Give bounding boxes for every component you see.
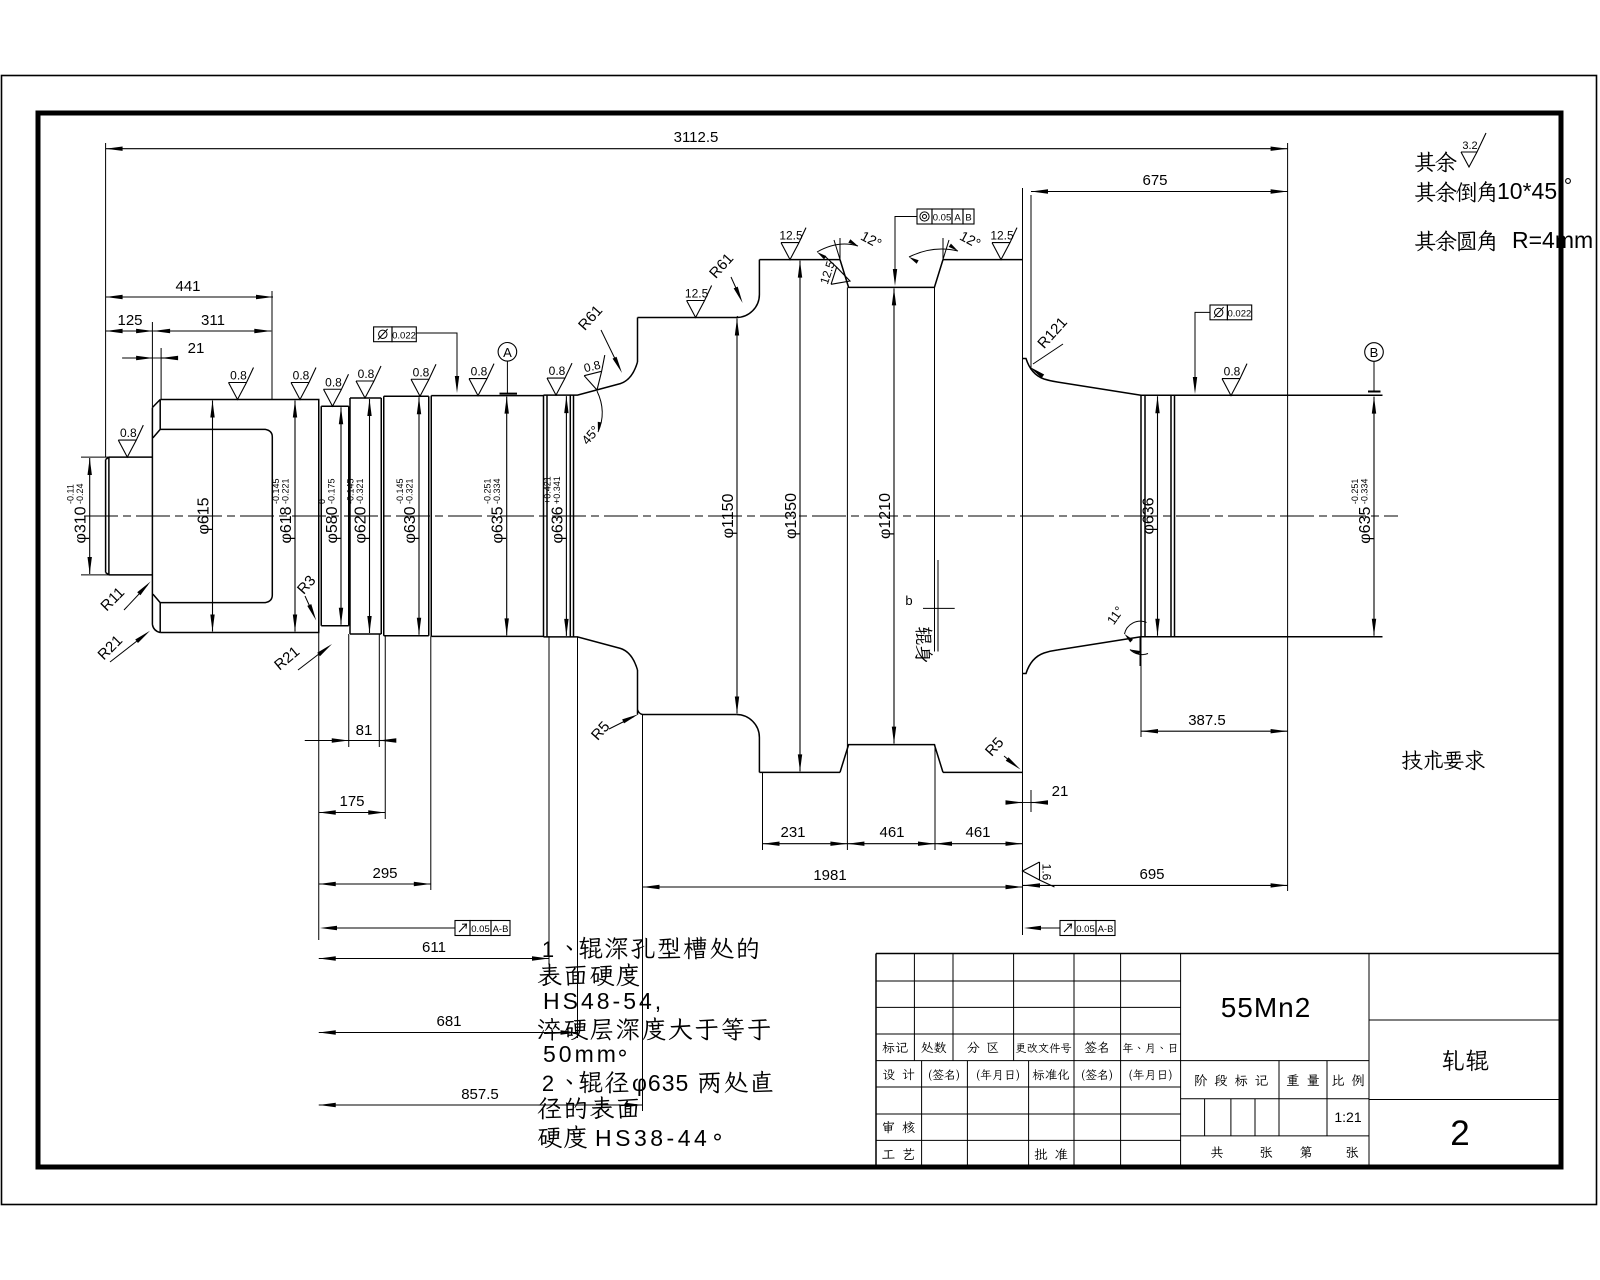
svg-text:φ310: φ310: [73, 506, 90, 543]
svg-text:311: 311: [201, 312, 225, 329]
dim phi615: [212, 401, 214, 632]
remark: rest surfaces 3.2: [1415, 151, 1457, 172]
svg-text:B: B: [965, 213, 971, 224]
section phi630: [384, 396, 429, 636]
title block grid: [876, 953, 1561, 955]
svg-text:0: 0: [317, 499, 327, 504]
ring phi636 right: [1141, 395, 1175, 636]
svg-text:0.8: 0.8: [471, 365, 488, 379]
title block stage row: [1195, 1074, 1267, 1086]
dim phi1150: [736, 319, 738, 714]
title block part name: [1443, 1050, 1489, 1072]
roughness 0.8 on phi580: [324, 374, 349, 406]
drive flat (spanner flat) edges: [153, 429, 272, 602]
dim phi1210: [893, 288, 895, 743]
svg-text:175: 175: [339, 793, 364, 810]
svg-text:1:21: 1:21: [1334, 1109, 1361, 1125]
svg-text:A-B: A-B: [1098, 924, 1114, 935]
angle 12 deg right: [934, 238, 949, 287]
dim 387.5: [1141, 730, 1288, 732]
svg-text:φ635: φ635: [490, 506, 507, 543]
svg-text:-0.145: -0.145: [271, 478, 281, 504]
svg-text:-0.145: -0.145: [395, 478, 405, 504]
svg-text:φ636: φ636: [1141, 497, 1158, 534]
cylindricity frame 0.022 right: [1210, 305, 1227, 320]
svg-text:0.8: 0.8: [120, 426, 137, 440]
svg-text:81: 81: [356, 722, 373, 739]
svg-text:3.2: 3.2: [1462, 140, 1477, 152]
svg-text:-0.321: -0.321: [355, 478, 365, 504]
phi1350 right face / extension line: [1022, 205, 1024, 935]
svg-text:0.8: 0.8: [230, 369, 247, 383]
roll body left face (phi1150): [638, 318, 643, 715]
svg-text:A: A: [954, 213, 961, 224]
roughness 0.8 on cone: [581, 355, 613, 392]
svg-text:1981: 1981: [813, 867, 846, 884]
taper cone and R61 concave transition left: [574, 362, 638, 670]
svg-text:1.6: 1.6: [1040, 864, 1054, 881]
extension lines bottom chain: [319, 633, 643, 1112]
roughness 12.5 on groove flank: [816, 256, 855, 291]
dim 695: [1023, 884, 1288, 886]
groove phi580: [321, 406, 349, 626]
svg-text:2: 2: [1450, 1114, 1469, 1153]
dim phi310: [89, 458, 91, 574]
svg-text:611: 611: [422, 939, 446, 956]
svg-text:12.5: 12.5: [685, 287, 709, 301]
roughness 0.8 on phi635: [469, 364, 494, 396]
position frame 0.05 A B groove: [917, 209, 932, 224]
svg-text:+0.421: +0.421: [542, 476, 552, 504]
svg-text:-0.145: -0.145: [346, 478, 356, 504]
svg-text:0.8: 0.8: [549, 364, 566, 378]
phi1350 first collar: [759, 260, 840, 773]
svg-text:-0.221: -0.221: [281, 478, 291, 504]
svg-text:-0.251: -0.251: [483, 478, 493, 504]
dim 611: [319, 958, 549, 960]
svg-text:0.05: 0.05: [933, 213, 952, 224]
roughness 12.5 on collar2: [992, 228, 1017, 260]
drive section phi618 outline: [160, 400, 319, 633]
note line 8: [538, 1125, 587, 1148]
svg-text:A-B: A-B: [493, 924, 509, 935]
note line 7: [538, 1096, 638, 1119]
dim phi636 right: [1157, 396, 1159, 635]
svg-text:55Mn2: 55Mn2: [1221, 992, 1312, 1023]
roughness 12.5 on roll body: [687, 286, 712, 318]
svg-text:0.8: 0.8: [358, 367, 375, 381]
svg-text:295: 295: [372, 865, 397, 882]
svg-text:681: 681: [436, 1013, 461, 1030]
svg-text:675: 675: [1142, 172, 1167, 189]
svg-text:12.5: 12.5: [779, 229, 803, 243]
datum B: [1365, 343, 1384, 362]
roughness 12.5 on collar1: [781, 228, 806, 260]
note line 2: [538, 963, 639, 986]
extension lines groove/collars bottom: [763, 287, 939, 850]
svg-text:φ1210: φ1210: [877, 493, 894, 539]
svg-text:φ618: φ618: [278, 506, 295, 543]
phi1350 second collar: [943, 260, 1023, 773]
svg-text:3112.5: 3112.5: [674, 129, 719, 146]
extension lines right: [1023, 188, 1142, 812]
svg-text:φ580: φ580: [324, 506, 341, 543]
svg-text:b: b: [905, 593, 912, 608]
dim phi635 right: [1373, 397, 1375, 636]
angle 45 deg cone: [597, 391, 602, 432]
svg-text:50mm: 50mm: [543, 1041, 619, 1067]
roughness 0.8 on right journal: [1222, 364, 1247, 396]
svg-text:0.8: 0.8: [1224, 365, 1241, 379]
dim 1981: [643, 886, 1023, 888]
svg-text:0.8: 0.8: [413, 365, 430, 379]
dim 21 right: [1007, 802, 1023, 804]
svg-text:φ1150: φ1150: [720, 494, 737, 539]
R61 fillet to phi1350: [736, 295, 759, 738]
svg-text:857.5: 857.5: [461, 1086, 499, 1103]
angle 12 deg left: [834, 238, 849, 287]
svg-text:21: 21: [1052, 783, 1069, 800]
dim phi618: [294, 401, 296, 632]
dim phi636 first: [565, 396, 567, 636]
roughness 0.8 on phi310: [118, 425, 143, 457]
step face + chamfers of drive section: [152, 400, 160, 633]
dim 231: [763, 843, 848, 845]
groove phi1210: [840, 260, 943, 773]
shaft right end face / extension line: [1287, 143, 1289, 891]
title block small labels row4: [882, 1042, 907, 1053]
runout frame 0.05 A-B right: [1060, 921, 1075, 936]
svg-text:R=4mm: R=4mm: [1512, 227, 1593, 253]
svg-text:695: 695: [1139, 866, 1164, 883]
dim 681: [319, 1032, 578, 1034]
ring phi636 left: [544, 395, 574, 637]
technical requirements heading: [1402, 750, 1485, 770]
svg-text:+0.341: +0.341: [552, 476, 562, 504]
svg-text:-0.251: -0.251: [1350, 479, 1360, 505]
title block label shenhe: [883, 1121, 915, 1133]
svg-text:φ620: φ620: [353, 506, 370, 543]
dim 21 chamfer: [122, 357, 153, 359]
roughness 0.8 on phi618: [229, 368, 254, 400]
svg-text:A: A: [503, 345, 512, 360]
dim phi635 first: [506, 397, 508, 636]
dim 81: [305, 740, 349, 742]
section phi635 left: [431, 396, 543, 637]
svg-text:-0.321: -0.321: [405, 478, 415, 504]
svg-text:-0.24: -0.24: [75, 483, 85, 504]
roughness 0.8 on phi618 right: [291, 368, 316, 400]
note line 4: [538, 1017, 770, 1040]
dim 125: [106, 330, 154, 332]
title block label gongyi / pizhun: [882, 1148, 914, 1160]
remark: rest chamfers: [1415, 181, 1495, 202]
svg-text:0.05: 0.05: [1076, 924, 1095, 935]
title block sheet row: [1211, 1146, 1223, 1158]
inner border frame: [38, 113, 1561, 1167]
svg-text:HS48-54,: HS48-54,: [543, 988, 664, 1014]
dim 3112.5 overall: [106, 148, 1288, 150]
dim 461 second: [935, 843, 1023, 845]
dim 295: [319, 883, 431, 885]
svg-text:φ636: φ636: [549, 506, 566, 543]
dim 311: [153, 330, 271, 332]
right journal phi635 top/bottom edges with extensions: [1141, 395, 1383, 636]
svg-text:-0.334: -0.334: [492, 478, 502, 504]
roughness 1.6 on collar face: [1023, 862, 1055, 887]
svg-text:1: 1: [542, 937, 554, 962]
svg-text:0.022: 0.022: [392, 331, 416, 342]
svg-text:-0.334: -0.334: [1360, 479, 1370, 505]
svg-text:φ615: φ615: [196, 497, 213, 534]
dim 675: [1031, 191, 1288, 193]
svg-text:φ1350: φ1350: [783, 493, 800, 539]
svg-text:-0.175: -0.175: [327, 478, 337, 504]
svg-text:12.5: 12.5: [990, 229, 1014, 243]
svg-text:10*45: 10*45: [1497, 178, 1557, 204]
svg-text:441: 441: [175, 278, 200, 295]
runout frame 0.05 A-B left: [455, 921, 470, 936]
svg-text:0.05: 0.05: [471, 924, 490, 935]
roughness 0.8 on phi630: [411, 364, 436, 396]
dim phi1350: [799, 261, 801, 772]
svg-text:0.8: 0.8: [293, 369, 310, 383]
dim phi580: [340, 407, 342, 625]
svg-text:φ635: φ635: [632, 1070, 689, 1096]
dim phi620: [369, 399, 371, 633]
dim phi630: [418, 397, 420, 635]
shaft left end stub (phi310): [106, 457, 153, 575]
svg-text:125: 125: [117, 312, 142, 329]
remark: rest fillets: [1415, 230, 1495, 251]
roll body phi1150 top/bottom: [638, 316, 739, 714]
svg-text:0.8: 0.8: [325, 375, 342, 389]
svg-text:B: B: [1370, 345, 1379, 360]
roughness 0.8 on phi620: [356, 366, 381, 398]
dim 857.5: [319, 1104, 643, 1106]
svg-text:461: 461: [879, 824, 904, 841]
angle 11 deg right transition: [1139, 637, 1141, 666]
svg-text:21: 21: [188, 340, 205, 357]
svg-text:φ635: φ635: [1357, 507, 1374, 544]
svg-text:461: 461: [965, 824, 990, 841]
dim 441: [106, 296, 273, 298]
roughness 0.8 on ring: [547, 363, 572, 395]
svg-text:231: 231: [780, 824, 805, 841]
dim 175: [319, 812, 386, 814]
section phi620: [350, 398, 381, 634]
svg-text:0.022: 0.022: [1228, 309, 1252, 320]
svg-text:φ630: φ630: [402, 506, 419, 543]
datum A: [498, 343, 517, 362]
title block small labels row5: [883, 1068, 914, 1080]
right transition curve R121: [1023, 359, 1142, 674]
extension lines left: [81, 143, 272, 575]
svg-text:-0.11: -0.11: [66, 484, 76, 504]
shaft centerline: [84, 515, 1398, 517]
dim 461 first: [847, 843, 935, 845]
svg-text:387.5: 387.5: [1188, 712, 1226, 729]
cylindricity frame 0.022 left: [374, 327, 392, 342]
svg-text:HS38-44: HS38-44: [595, 1125, 710, 1151]
svg-text:2: 2: [542, 1071, 554, 1096]
